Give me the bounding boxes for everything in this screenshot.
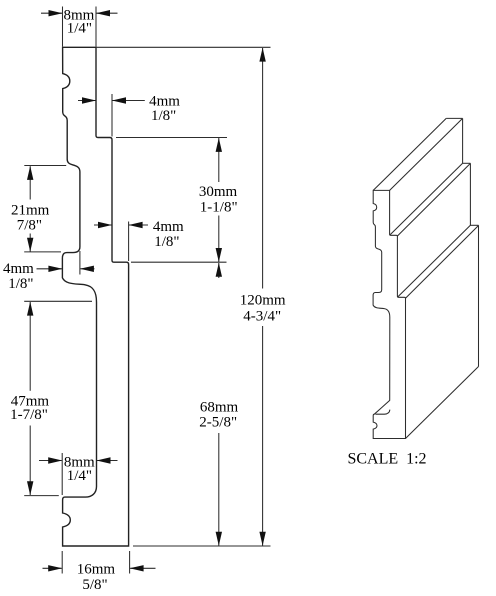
svg-text:21mm: 21mm: [11, 202, 50, 218]
svg-text:4mm: 4mm: [3, 261, 34, 277]
svg-text:120mm: 120mm: [240, 293, 286, 309]
svg-text:1/8": 1/8": [8, 276, 33, 292]
svg-text:4-3/4": 4-3/4": [243, 308, 281, 324]
svg-text:16mm: 16mm: [77, 562, 116, 578]
svg-text:30mm: 30mm: [199, 184, 238, 200]
svg-text:1/4": 1/4": [67, 21, 92, 37]
svg-text:1/8": 1/8": [154, 234, 179, 250]
svg-text:7/8": 7/8": [17, 218, 42, 234]
svg-text:1-7/8": 1-7/8": [10, 407, 48, 423]
svg-text:SCALE 1:2: SCALE 1:2: [347, 451, 426, 468]
svg-text:4mm: 4mm: [153, 219, 184, 235]
svg-text:1-1/8": 1-1/8": [200, 200, 238, 216]
svg-text:1/8": 1/8": [151, 108, 176, 124]
svg-text:4mm: 4mm: [149, 93, 180, 109]
svg-text:1/4": 1/4": [67, 468, 92, 484]
svg-text:2-5/8": 2-5/8": [199, 414, 237, 430]
svg-text:5/8": 5/8": [82, 577, 107, 593]
svg-text:68mm: 68mm: [200, 399, 239, 415]
